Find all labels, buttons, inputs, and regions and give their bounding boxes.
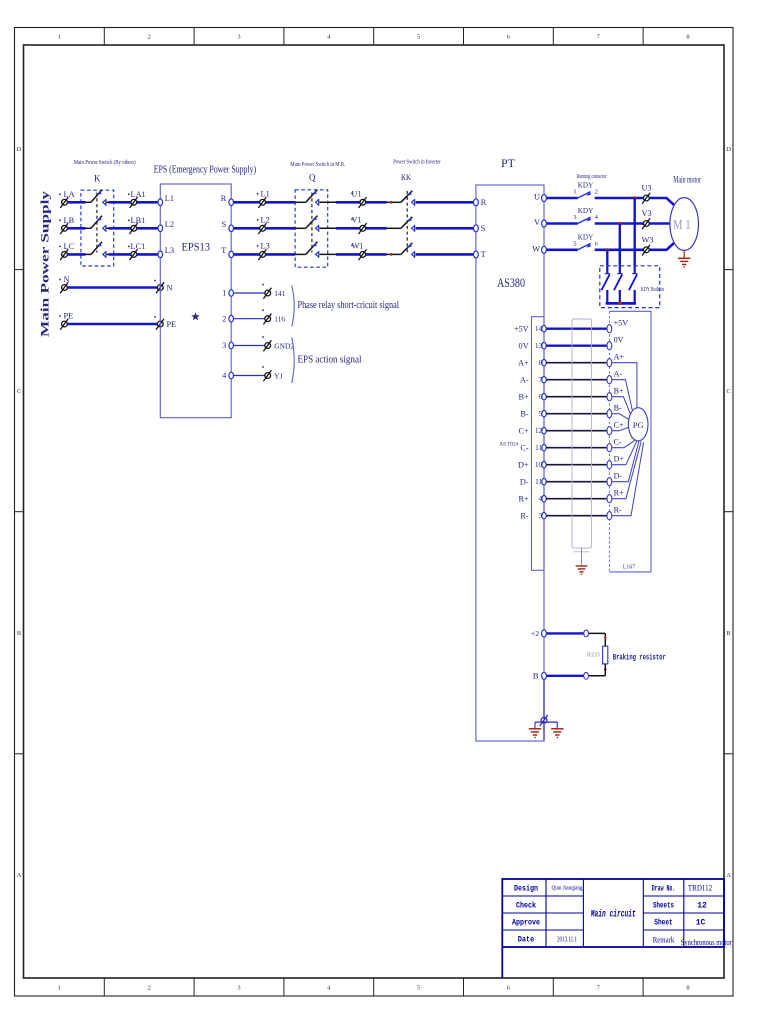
wire +2 to braking resistor [547,632,584,634]
motor M1 [670,198,699,251]
svg-text:0V: 0V [519,342,529,351]
switch KK pole U1 [401,191,415,206]
EPS output terminal T [229,251,234,258]
svg-text:R-: R- [614,506,622,515]
svg-text:2: 2 [222,314,226,323]
svg-text:C: C [726,388,730,395]
PG unit terminal B- [607,410,612,418]
svg-text:Draw No.: Draw No. [652,885,676,894]
svg-text:S: S [481,223,486,233]
wire 0V [546,345,607,347]
switch K dashed box [81,190,114,266]
switch K pole LB [91,216,106,232]
node 141 terminal [263,288,271,299]
svg-text:LC: LC [64,242,75,251]
switch Q mechanical linkage [311,193,313,253]
encoder PG [628,408,648,441]
svg-text:5: 5 [573,241,576,248]
node GND2 terminal [263,340,271,351]
node L1 terminal [258,197,266,208]
wire L3 to switch Q [265,253,295,256]
PG unit terminal A- [607,376,612,384]
node LC1 terminal [130,249,138,260]
svg-text:EPS action signal: EPS action signal [298,354,362,366]
svg-text:R: R [221,194,227,203]
svg-text:7: 7 [597,985,601,992]
inverter input terminal R [474,199,479,206]
wire switch Q to W1 [320,253,337,255]
wire inverter to KDY contact [547,222,578,225]
wire EPS 4 to YJ [234,375,265,377]
wire N to EPS [67,286,157,289]
svg-text:PG: PG [633,420,644,430]
wire U3 to motor [649,198,677,208]
cable shield [572,319,592,548]
svg-text:Sheet: Sheet [654,919,673,928]
wire B- [546,413,607,415]
wire C- [546,447,607,449]
wire V1 to switch KK [366,227,387,230]
wire PE to EPS [67,323,157,326]
wire R+ [546,498,607,500]
svg-text:AS380: AS380 [497,276,525,290]
wire D+ [546,464,607,466]
junction dot [606,248,609,251]
node LB terminal [60,223,68,234]
svg-text:D: D [726,146,731,153]
wire R- [546,515,607,517]
svg-text:Design: Design [514,885,538,894]
node N terminal [60,282,68,293]
svg-text:2: 2 [148,985,151,992]
wire inverter to KDY contact [547,249,578,252]
junction dot [604,668,607,671]
svg-text:LB1: LB1 [131,216,146,225]
wire W3 to motor [649,241,677,250]
built-in contact [606,266,608,274]
junction dot [618,222,621,225]
PG unit terminal D- [607,478,612,486]
EPS N input terminal [156,282,164,293]
svg-text:L3: L3 [261,242,270,251]
svg-text:L167: L167 [623,564,635,570]
svg-text:B+: B+ [518,393,529,402]
node U3 terminal [642,193,650,204]
PG unit terminal R- [607,512,612,520]
wire EPS 1 to 141 [234,292,265,294]
wire switch Q to V1 [320,227,337,229]
switch KK pole V1 [401,217,415,232]
wire PG A- [612,380,633,411]
svg-text:D+: D+ [614,455,625,464]
svg-text:B-: B- [520,410,529,419]
svg-text:Approve: Approve [512,919,540,928]
svg-text:L1: L1 [261,190,270,199]
svg-text:Qian Jianqiang: Qian Jianqiang [552,886,583,892]
EPS signal terminal 4 [229,372,234,379]
EPS input terminal L1 [158,199,163,206]
switch Q pole U1 [306,190,319,206]
svg-text:2013.11.1: 2013.11.1 [557,936,577,944]
svg-text:B: B [533,671,539,681]
switch KK pole W1 [401,243,415,258]
svg-text:B+: B+ [614,387,624,396]
svg-text:A: A [17,872,22,879]
title block text [512,883,732,948]
wire B to earth terminal [543,679,545,717]
wire PG B+ [612,397,631,414]
svg-text:B: B [17,630,22,637]
EPS output terminal R [229,199,234,206]
ground symbol right [551,729,563,735]
svg-text:0V: 0V [614,336,624,345]
wire LB1 to EPS L2 [137,227,159,230]
shield ground wire [581,548,583,566]
built-in contacts common bus [606,302,636,305]
svg-text:KDY: KDY [578,207,594,215]
wire PG R+ [612,442,641,499]
svg-text:KDY: KDY [578,233,594,241]
svg-text:V3: V3 [642,209,652,218]
star mark [191,312,200,320]
svg-text:D+: D+ [518,461,529,470]
svg-text:S: S [222,220,227,229]
svg-text:Synchronous motor: Synchronous motor [681,937,732,947]
svg-text:A-: A- [520,376,529,385]
svg-text:Running contactor: Running contactor [577,174,607,180]
svg-text:T: T [481,249,487,259]
svg-text:141: 141 [274,289,285,298]
svg-text:Main Power Supply: Main Power Supply [38,191,52,337]
svg-text:Main circuit: Main circuit [590,909,636,921]
EPS signal terminal 3 [229,342,234,349]
built-in contact [634,266,636,274]
svg-text:B: B [726,630,731,637]
svg-text:2: 2 [595,189,598,196]
brace phase relay signal [292,286,294,327]
junction dot [604,637,607,640]
svg-text:U3: U3 [642,184,652,193]
built-in contact [619,266,621,274]
PG unit terminal C- [607,444,612,452]
wire braking resistor to B [604,664,606,676]
node W3 terminal [642,245,650,256]
EPS PE input terminal [156,319,164,330]
svg-text:R+: R+ [614,489,624,498]
svg-text:LA: LA [64,190,75,199]
switch Q pole V1 [306,216,319,232]
switch K pole LC [91,242,106,258]
node LC terminal [60,249,68,260]
wire LA to switch K [67,201,85,204]
svg-text:5: 5 [417,34,420,41]
svg-text:W: W [532,243,540,253]
svg-text:KDY Built-in: KDY Built-in [641,286,665,293]
wire V3 to motor [649,222,670,225]
inverter output terminal V [542,220,547,227]
wire EPS to node L1 [234,201,260,204]
svg-text:R+: R+ [518,495,529,504]
wire KDY contact to W3 [595,249,644,252]
svg-text:4: 4 [222,371,226,380]
svg-text:GND2: GND2 [274,341,294,350]
svg-text:A: A [726,872,731,879]
node L3 terminal [258,249,266,260]
svg-text:1: 1 [573,189,576,196]
EPS signal terminal 1 [229,290,234,297]
svg-text:1C: 1C [696,919,706,928]
wire L1 to switch Q [265,201,295,204]
PG unit terminal B+ [607,393,612,401]
svg-text:YJ: YJ [274,371,282,380]
wire earth terminal down [543,723,545,740]
svg-text:C-: C- [520,444,529,453]
switch Q dashed box [295,190,328,267]
svg-text:AS.T024: AS.T024 [499,441,518,447]
node W1 terminal [359,249,367,260]
svg-text:EPS13: EPS13 [182,240,211,254]
wire +5V [546,328,607,330]
wire PG A+ [612,363,637,409]
wire PG B- [612,414,629,420]
svg-text:C+: C+ [518,427,529,436]
svg-text:U1: U1 [352,190,362,199]
svg-text:D-: D- [520,478,529,487]
svg-text:RZD: RZD [587,652,600,659]
svg-text:B-: B- [614,404,622,413]
svg-text:TRD112: TRD112 [688,883,712,893]
ground symbol left [529,729,541,735]
wire switch K to LA1 [107,201,109,203]
node PE terminal [60,319,68,330]
svg-text:+5V: +5V [614,319,629,328]
svg-text:Main Power Switch in M.R.: Main Power Switch in M.R. [290,161,345,168]
EPS signal terminal 2 [229,315,234,322]
wire D- [546,481,607,483]
wire PG D- [612,441,639,481]
svg-text:L2: L2 [261,216,270,225]
switch K mechanical linkage [96,193,98,253]
svg-text:KDY: KDY [578,182,594,190]
inverter input terminal T [474,251,479,258]
wire W phase to built-in contact [606,250,608,266]
inverter input terminal S [474,225,479,232]
node LA terminal [60,197,68,208]
EPS input terminal L2 [158,225,163,232]
wire U phase to built-in contact [634,198,636,266]
PG unit terminal A+ [607,359,612,367]
svg-text:3: 3 [573,214,576,221]
svg-text:D-: D- [614,472,623,481]
wire KDY contact to V3 [595,222,644,225]
svg-text:K: K [94,174,101,184]
svg-text:Sheets: Sheets [653,902,674,911]
node L2 terminal [258,223,266,234]
svg-text:L3: L3 [165,246,174,255]
svg-text:Q: Q [309,173,316,183]
svg-text:PT: PT [501,156,516,170]
svg-text:7: 7 [597,34,601,41]
svg-text:+2: +2 [531,629,539,638]
wire EPS 2 to 116 [234,318,265,320]
junction dot [390,201,393,204]
wire switch Q to U1 [320,201,337,203]
svg-text:Main motor: Main motor [673,175,701,185]
svg-text:U: U [534,192,540,202]
wire LC1 to EPS L3 [137,253,159,256]
svg-text:A+: A+ [518,359,529,368]
node V3 terminal [642,218,650,229]
svg-text:Check: Check [516,902,536,911]
motor ground [683,250,685,258]
svg-text:C-: C- [614,438,622,447]
svg-text:N: N [64,275,70,284]
svg-text:A-: A- [614,370,623,379]
svg-text:Date: Date [518,936,535,945]
PG card terminal strip [532,317,545,571]
svg-text:A+: A+ [614,353,625,362]
svg-text:D: D [17,146,22,153]
wire inverter to KDY contact [547,197,578,200]
svg-text:Power Switch in Inverter: Power Switch in Inverter [393,159,441,166]
svg-text:4: 4 [327,34,331,41]
switch Q pole W1 [306,242,319,258]
wire U1 to switch KK [366,201,387,204]
svg-text:LB: LB [64,216,75,225]
brace EPS action signal [292,338,294,384]
KDY built-in contacts dashed box [600,266,660,308]
svg-text:Braking resistor: Braking resistor [613,652,666,662]
svg-text:W1: W1 [352,242,364,251]
svg-text:12: 12 [697,902,707,911]
wire switch K to LC1 [107,253,109,255]
node U1 terminal [359,197,367,208]
wire PG R- [612,442,644,515]
title block [502,879,724,978]
svg-text:Phase relay short-cricuit sign: Phase relay short-cricuit signal [298,299,400,311]
inverter terminal B [542,672,547,679]
node YJ terminal [263,370,271,381]
wire PG C- [612,441,635,448]
svg-text:6: 6 [595,241,598,248]
wire PG C+ [612,427,629,430]
EPS output terminal S [229,225,234,232]
PG unit terminal C+ [607,427,612,435]
svg-text:6: 6 [507,985,511,992]
svg-text:R-: R- [520,512,529,521]
svg-text:8: 8 [686,34,689,41]
earth terminal [540,715,548,726]
svg-text:PE: PE [167,320,177,329]
svg-text:5: 5 [417,985,420,992]
junction dot on bus [618,302,621,305]
svg-text:LA1: LA1 [131,190,146,199]
wire LC to switch K [67,253,85,256]
shield ground [576,566,588,572]
svg-text:Remark: Remark [653,935,675,945]
svg-text:1: 1 [58,985,61,992]
svg-text:L1: L1 [165,194,174,203]
resistor RZD [603,646,608,664]
svg-text:V1: V1 [352,216,362,225]
wire A+ [546,362,607,364]
PG unit terminal +5V [607,325,612,333]
inverter terminal +2 [542,630,547,637]
wire switch KK to inverter [416,201,474,204]
svg-text:3: 3 [222,341,226,350]
wire EPS 3 to GND2 [234,345,265,347]
inverter output terminal U [542,195,547,202]
junction dot [390,253,393,256]
svg-text:1: 1 [222,289,226,298]
svg-text:6: 6 [507,34,511,41]
svg-text:3: 3 [237,985,240,992]
svg-text:R: R [481,197,487,207]
svg-text:KK: KK [401,172,412,182]
wire B+ [546,396,607,398]
node LB1 terminal [130,223,138,234]
svg-text:3: 3 [237,34,240,41]
EPS input terminal L3 [158,251,163,258]
wire KDY contact to U3 [595,197,644,200]
PG encoder unit box [609,311,651,572]
svg-text:PE: PE [64,312,74,321]
svg-text:C: C [17,388,21,395]
wire LA1 to EPS L1 [137,201,159,204]
wire switch KK to inverter [416,227,474,230]
PG unit terminal D+ [607,461,612,469]
svg-text:1: 1 [58,34,61,41]
svg-text:LC1: LC1 [131,242,146,251]
inverter AS380 box [476,185,544,741]
svg-text:2: 2 [148,34,151,41]
svg-text:T: T [221,246,226,255]
switch K pole LA [91,190,106,206]
wire EPS to node L3 [234,253,260,256]
inverter output terminal W [542,246,547,253]
svg-text:L2: L2 [165,220,174,229]
wire V phase to built-in contact [619,224,621,266]
switch KK mechanical linkage [406,191,408,253]
wire EPS to node L2 [234,227,260,230]
node LA1 terminal [130,197,138,208]
wire switch K to LB1 [107,227,109,229]
svg-text:Main Power Switch (By others): Main Power Switch (By others) [74,159,136,166]
earth bar [535,721,557,723]
wire switch KK to inverter [416,253,474,256]
svg-text:8: 8 [686,985,689,992]
svg-text:4: 4 [595,214,599,221]
PG unit terminal R+ [607,495,612,503]
wire L2 to switch Q [265,227,295,230]
svg-text:N: N [167,283,173,292]
svg-text:V: V [534,217,541,227]
svg-text:116: 116 [274,315,285,324]
svg-text:4: 4 [327,985,331,992]
svg-text:M 1: M 1 [673,218,691,233]
node 116 terminal [263,314,271,325]
EPS13 power supply box [160,184,231,418]
PG unit terminal 0V [607,342,612,350]
svg-text:W3: W3 [642,235,654,244]
wire W1 to switch KK [366,253,387,256]
junction dot [633,196,636,199]
svg-text:C+: C+ [614,421,624,430]
svg-text:EPS (Emergency Power Supply): EPS (Emergency Power Supply) [154,164,257,176]
node V1 terminal [359,223,367,234]
wire PG D+ [612,441,637,464]
wire A- [546,379,607,381]
